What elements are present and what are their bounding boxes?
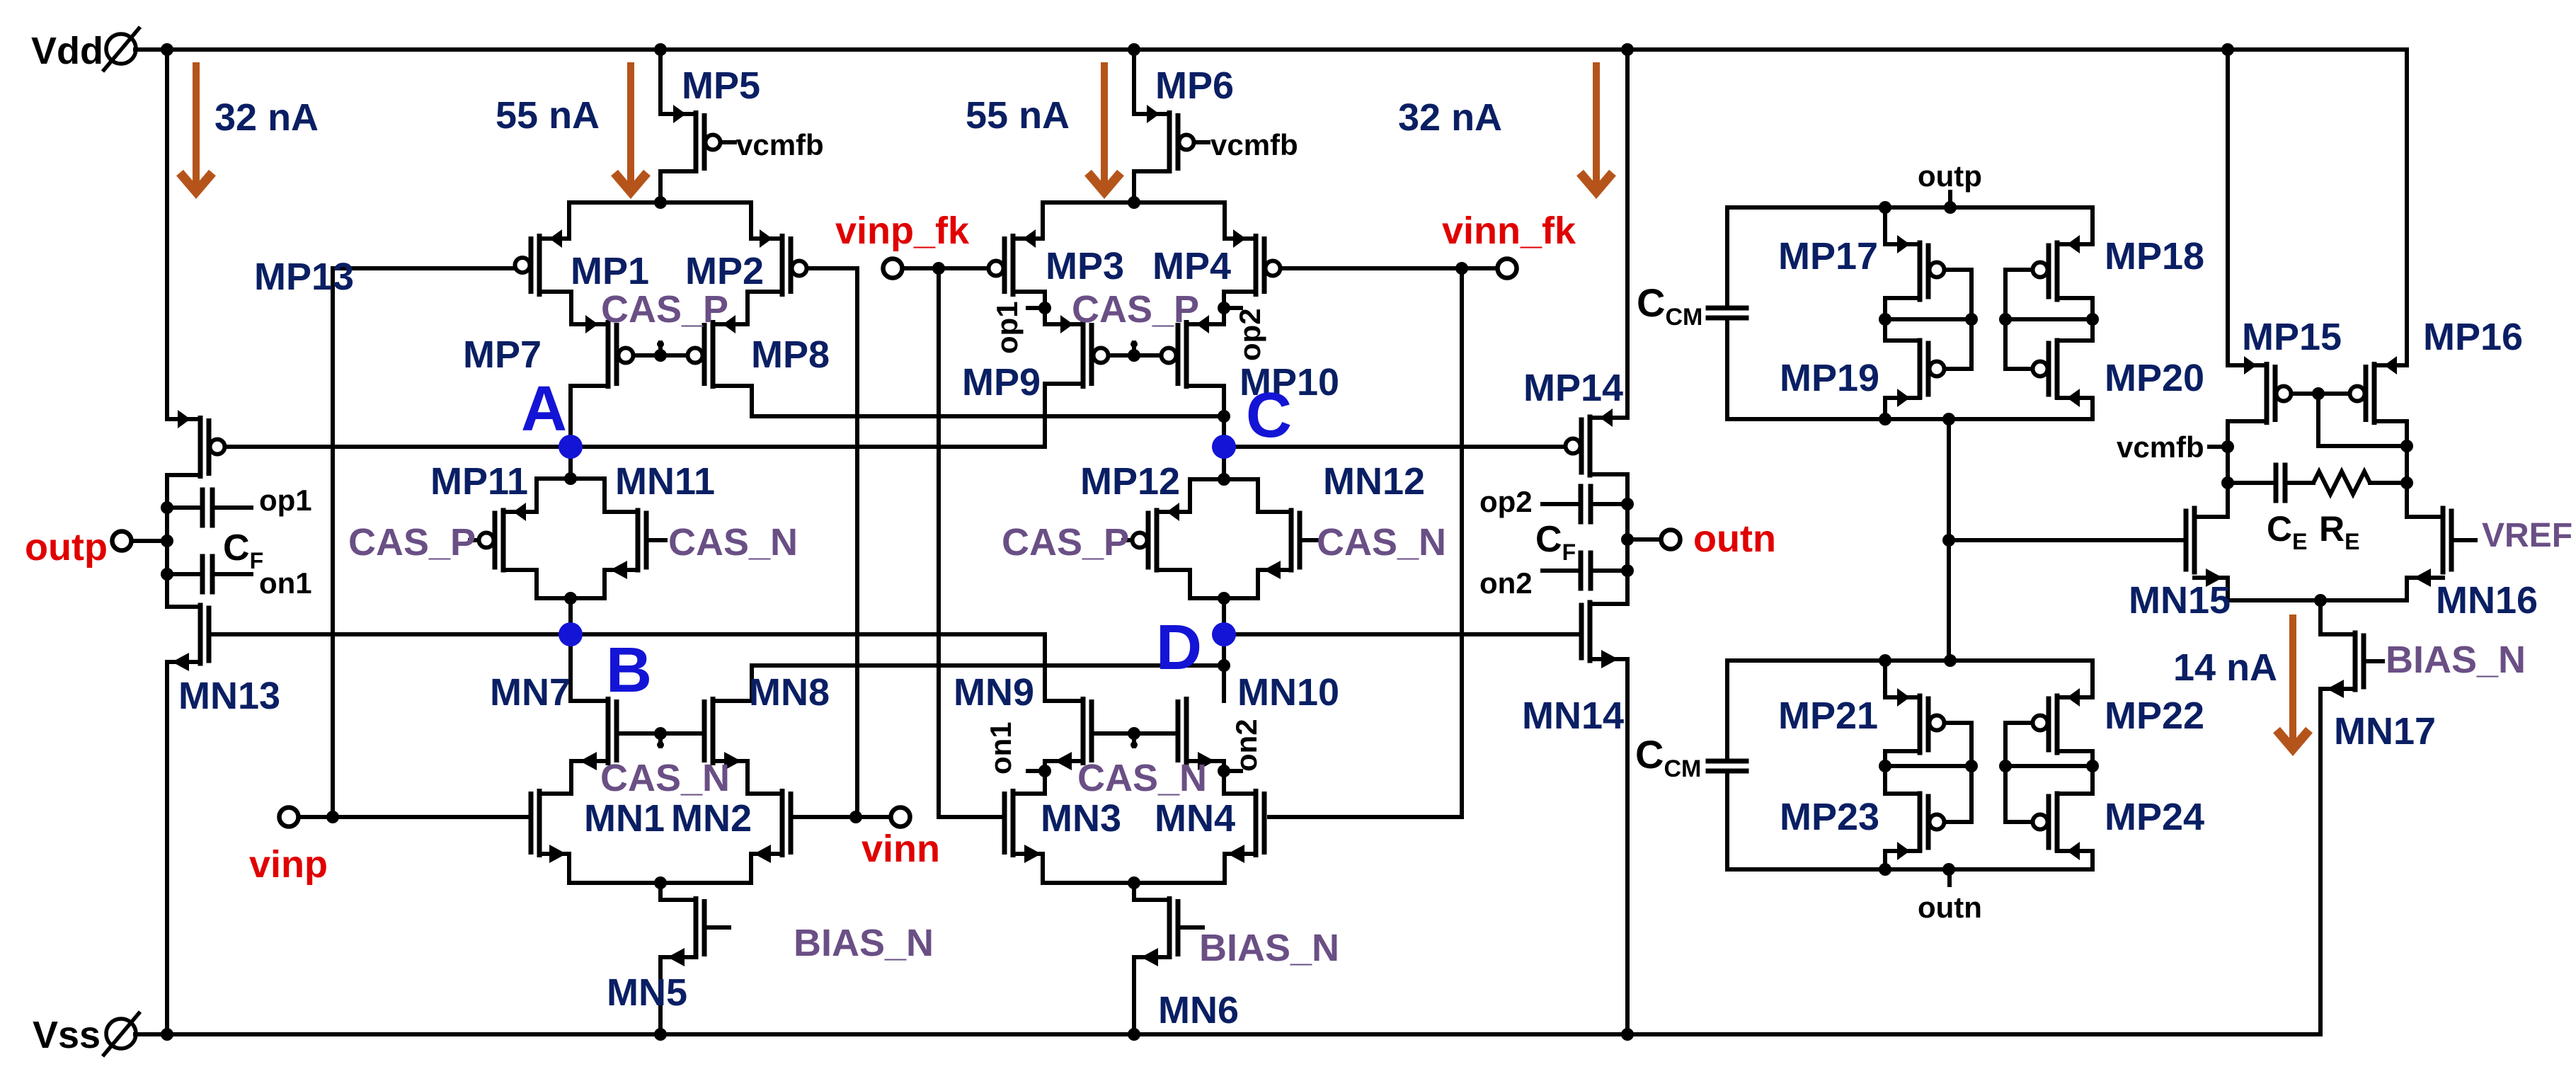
svg-text:MP3: MP3 <box>1046 245 1124 287</box>
svg-text:MN14: MN14 <box>1522 695 1624 737</box>
svg-text:vinn_fk: vinn_fk <box>1442 210 1576 252</box>
svg-text:MP24: MP24 <box>2105 796 2204 838</box>
svg-text:on1: on1 <box>984 721 1017 775</box>
svg-text:C: C <box>1246 380 1292 451</box>
svg-text:vcmfb: vcmfb <box>1210 128 1298 161</box>
svg-text:VREF: VREF <box>2482 517 2572 554</box>
svg-text:on2: on2 <box>1230 719 1263 772</box>
svg-text:MN9: MN9 <box>954 671 1034 714</box>
svg-text:BIAS_N: BIAS_N <box>794 922 934 964</box>
svg-text:op2: op2 <box>1479 485 1533 518</box>
svg-text:MP4: MP4 <box>1152 245 1231 287</box>
svg-text:Vdd: Vdd <box>31 30 103 72</box>
svg-text:outp: outp <box>1918 159 1982 193</box>
svg-text:MN5: MN5 <box>607 971 687 1014</box>
svg-text:MN4: MN4 <box>1155 797 1235 840</box>
svg-text:MN6: MN6 <box>1158 989 1239 1032</box>
svg-text:vcmfb: vcmfb <box>2117 430 2204 464</box>
svg-text:MN3: MN3 <box>1041 797 1121 840</box>
svg-text:MP23: MP23 <box>1780 796 1879 838</box>
svg-text:MP15: MP15 <box>2242 316 2342 358</box>
svg-text:32 nA: 32 nA <box>1398 96 1502 139</box>
svg-text:CAS_N: CAS_N <box>600 757 730 799</box>
svg-text:MP9: MP9 <box>962 361 1041 404</box>
svg-text:MP21: MP21 <box>1778 695 1878 737</box>
svg-text:vinn: vinn <box>861 828 940 870</box>
svg-text:MP16: MP16 <box>2423 316 2523 358</box>
svg-text:MP6: MP6 <box>1155 64 1234 107</box>
svg-text:outp: outp <box>25 526 108 569</box>
svg-text:55 nA: 55 nA <box>966 94 1070 137</box>
svg-text:MP18: MP18 <box>2105 235 2204 278</box>
svg-text:BIAS_N: BIAS_N <box>2386 639 2526 681</box>
svg-text:MP7: MP7 <box>463 333 542 376</box>
svg-text:MP12: MP12 <box>1080 460 1180 503</box>
svg-text:on2: on2 <box>1479 566 1533 600</box>
svg-text:op1: op1 <box>990 301 1024 354</box>
svg-text:MN17: MN17 <box>2334 710 2436 753</box>
svg-text:MN10: MN10 <box>1237 671 1339 714</box>
svg-text:14 nA: 14 nA <box>2173 646 2277 689</box>
svg-text:vcmfb: vcmfb <box>736 128 824 161</box>
svg-text:55 nA: 55 nA <box>496 94 600 137</box>
svg-text:MN8: MN8 <box>749 671 830 714</box>
svg-text:MN12: MN12 <box>1323 460 1425 503</box>
svg-text:op1: op1 <box>259 484 312 517</box>
svg-text:on1: on1 <box>259 566 312 600</box>
svg-text:CAS_P: CAS_P <box>348 521 476 564</box>
svg-text:MN1: MN1 <box>584 797 665 840</box>
svg-text:outn: outn <box>1693 518 1776 560</box>
svg-text:CAS_N: CAS_N <box>668 521 798 564</box>
svg-text:MP1: MP1 <box>571 250 649 292</box>
svg-text:MN16: MN16 <box>2436 579 2538 622</box>
svg-text:MN11: MN11 <box>615 460 715 503</box>
svg-text:vinp_fk: vinp_fk <box>835 210 970 252</box>
svg-text:MP11: MP11 <box>430 460 528 503</box>
svg-text:32 nA: 32 nA <box>214 96 319 139</box>
svg-text:MP8: MP8 <box>751 333 830 376</box>
svg-text:CAS_N: CAS_N <box>1077 757 1207 799</box>
svg-text:MN2: MN2 <box>671 797 752 840</box>
svg-text:A: A <box>521 374 567 445</box>
svg-text:CAS_P: CAS_P <box>1072 288 1199 331</box>
svg-text:vinp: vinp <box>249 843 328 886</box>
svg-text:CAS_P: CAS_P <box>1002 521 1129 564</box>
svg-text:MN7: MN7 <box>490 671 571 714</box>
svg-text:BIAS_N: BIAS_N <box>1199 927 1339 969</box>
svg-text:MP14: MP14 <box>1523 367 1623 409</box>
svg-text:MP20: MP20 <box>2105 357 2204 399</box>
svg-text:Vss: Vss <box>33 1014 101 1056</box>
svg-text:MP22: MP22 <box>2105 695 2204 737</box>
svg-text:B: B <box>606 635 652 706</box>
svg-text:CAS_N: CAS_N <box>1317 521 1446 564</box>
svg-text:MP2: MP2 <box>685 250 764 292</box>
svg-text:D: D <box>1156 612 1202 683</box>
svg-text:MN13: MN13 <box>178 675 280 717</box>
svg-text:MN15: MN15 <box>2129 579 2231 622</box>
svg-text:op2: op2 <box>1233 308 1266 361</box>
svg-text:CAS_P: CAS_P <box>601 288 728 331</box>
svg-text:MP13: MP13 <box>254 256 354 298</box>
svg-text:outn: outn <box>1918 891 1982 924</box>
svg-text:MP17: MP17 <box>1778 235 1878 278</box>
svg-text:MP19: MP19 <box>1780 357 1879 399</box>
svg-text:MP5: MP5 <box>682 64 760 107</box>
